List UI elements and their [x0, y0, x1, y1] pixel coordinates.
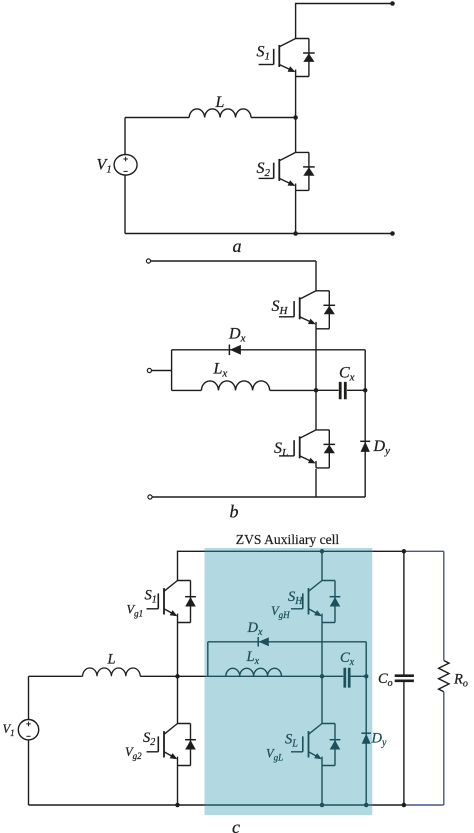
- wire (b) Lx right lead: [270, 389, 316, 391]
- node (a) positive output terminal: [390, 1, 395, 6]
- label V1 (c): [3, 722, 15, 738]
- inductor L: [189, 109, 251, 118]
- label V1: [97, 157, 112, 176]
- capacitor Cx: [340, 382, 345, 399]
- label ZVS Auxiliary cell: [236, 532, 340, 547]
- label Dy (c): [371, 731, 387, 749]
- capacitor Cx (c): [345, 668, 349, 688]
- label L (c): [107, 652, 116, 668]
- label Dx: [228, 326, 246, 345]
- transistor S2 with antiparallel diode: [259, 152, 315, 190]
- transistor SL with antiparallel diode: [279, 430, 335, 468]
- inductor L (c): [83, 668, 141, 676]
- svg-text:Vg2: Vg2: [125, 745, 142, 761]
- wire (c) bottom rail right segment: [372, 804, 404, 806]
- inductor Lx: [201, 381, 269, 390]
- node (c) bottom rail Dy junction: [364, 803, 369, 808]
- label Lx: [213, 361, 228, 380]
- wire (c) S1 collector feed: [177, 551, 179, 581]
- label VgL: [266, 747, 283, 763]
- wire (c) Ro bottom lead: [443, 692, 445, 805]
- node (c) top rail SH junction: [320, 549, 325, 554]
- label L: [215, 94, 225, 111]
- label a (subfigure): [233, 236, 242, 256]
- svg-text:Co: Co: [378, 671, 393, 689]
- wire (c) Co bottom lead: [403, 682, 405, 805]
- diode Dy (c): [361, 733, 371, 744]
- svg-text:b: b: [230, 502, 239, 522]
- wire (b) Dx branch: [172, 349, 366, 351]
- svg-text:Cx: Cx: [339, 365, 355, 384]
- transistor S1 with antiparallel diode (c): [147, 581, 196, 623]
- svg-text:SL: SL: [274, 440, 288, 459]
- wire (c) top rail inside cell: [205, 550, 373, 552]
- wire (a) bottom rail: [125, 233, 393, 235]
- wire (c) Dx branch: [208, 641, 366, 643]
- wire (c) aux right vertical: [365, 642, 367, 805]
- label Co: [378, 671, 393, 689]
- diode Dy: [360, 441, 370, 452]
- node (b) bottom input terminal: [148, 495, 152, 499]
- svg-text:S1: S1: [257, 44, 271, 63]
- wire (b) SH collector feed: [315, 261, 317, 291]
- label VgH: [271, 604, 290, 620]
- wire (b) middle terminal lead: [152, 370, 172, 372]
- svg-text:c: c: [232, 817, 240, 833]
- node (b) Cx right junction: [363, 388, 368, 393]
- svg-text:Dy: Dy: [373, 438, 391, 457]
- node (a) switch midpoint: [293, 115, 298, 120]
- resistor Ro: [439, 661, 449, 692]
- svg-text:SH: SH: [272, 298, 289, 317]
- wire (c) Cx right lead: [351, 675, 367, 677]
- svg-text:V1: V1: [97, 157, 112, 176]
- node (b) auxiliary midpoint: [314, 388, 319, 393]
- node (b) top input terminal: [146, 259, 150, 263]
- label Ro: [453, 672, 468, 690]
- node (c) aux midpoint: [320, 674, 325, 679]
- wire (c) S2 collector from main node: [177, 676, 179, 723]
- svg-text:S1: S1: [145, 588, 157, 606]
- wire (b) Cx right lead: [347, 389, 365, 391]
- wire (b) SH emitter to midpoint: [315, 329, 317, 430]
- wire (a) inductor left lead: [125, 117, 189, 119]
- wire (a) S1 collector feed: [295, 3, 297, 39]
- svg-text:Dx: Dx: [228, 326, 246, 345]
- wire (b) SL emitter to bottom rail: [315, 469, 317, 497]
- label b (subfigure): [230, 502, 239, 522]
- wire (a) top rail to output terminal: [296, 3, 393, 5]
- diode Dx (c): [258, 637, 269, 647]
- wire (c) Cx left lead: [322, 675, 343, 677]
- wire (a) S2 collector from midpoint: [295, 118, 297, 153]
- wire (c) SH collector feed: [321, 551, 323, 580]
- label Dy: [373, 438, 391, 457]
- wire (c) top rail left segment: [178, 550, 205, 552]
- wire (a) S2 emitter to bottom rail: [295, 190, 297, 233]
- svg-text:V1: V1: [3, 722, 15, 738]
- wire (c) top rail to Ro: [404, 550, 444, 552]
- node (c) bottom rail S2 junction: [175, 803, 180, 808]
- wire (c) S1 emitter to main node: [177, 623, 179, 677]
- wire (c) SH emitter to aux midpoint: [321, 623, 323, 677]
- wire (a) S1 emitter to midpoint node: [295, 77, 297, 118]
- label Dx (c): [247, 620, 263, 638]
- wire (c) SL collector from aux midpoint: [321, 676, 323, 723]
- transistor SH with antiparallel diode (c): [291, 581, 340, 623]
- label S1 (c): [145, 588, 157, 606]
- svg-text:Vg1: Vg1: [127, 603, 144, 619]
- wire (c) SL emitter to bottom rail: [321, 766, 323, 806]
- wire (c) source bottom lead: [28, 740, 30, 805]
- wire (a) inductor right lead: [251, 117, 296, 119]
- svg-text:ZVS Auxiliary cell: ZVS Auxiliary cell: [236, 532, 340, 547]
- source V1: [114, 155, 137, 176]
- svg-text:Ro: Ro: [453, 672, 468, 690]
- wire (b) top rail: [151, 260, 316, 262]
- label Vg1: [127, 603, 144, 619]
- label Lx (c): [246, 649, 260, 667]
- svg-text:S2: S2: [257, 160, 271, 179]
- node (c) bottom rail SL junction: [320, 803, 325, 808]
- transistor S1 with antiparallel diode: [259, 39, 315, 77]
- wire (c) aux left vertical: [207, 642, 209, 677]
- transistor SL with antiparallel diode (c): [291, 724, 340, 766]
- label S2 (c): [143, 730, 155, 748]
- wire (c) bottom rail inside cell: [205, 804, 373, 806]
- inductor Lx (c): [226, 668, 282, 676]
- wire (b) Cx left lead: [316, 389, 339, 391]
- transistor SH with antiparallel diode: [279, 291, 335, 329]
- label SL: [274, 440, 288, 459]
- wire (c) main line from source corner: [29, 675, 83, 677]
- capacitor Co: [395, 676, 414, 681]
- wire (a) source top lead: [124, 118, 126, 155]
- svg-text:L: L: [107, 652, 116, 668]
- label SH: [272, 298, 289, 317]
- wire (c) Ro top lead: [443, 551, 445, 660]
- source V1 (c): [18, 720, 38, 740]
- diode Dx: [229, 345, 241, 356]
- label Cx (c): [340, 650, 355, 668]
- label SL (c): [285, 732, 298, 750]
- wire (c) main line L to box: [140, 675, 204, 677]
- wire (a) source bottom lead: [124, 175, 126, 234]
- wire (c) bottom rail to Ro: [404, 804, 444, 806]
- transistor S2 with antiparallel diode (c): [147, 724, 196, 766]
- wire (c) bottom rail left segment: [29, 804, 205, 806]
- wire (c) Co top lead: [403, 551, 405, 674]
- node (c) bottom rail Co junction: [402, 803, 407, 808]
- label Cx: [339, 365, 355, 384]
- wire (c) main line inside cell: [205, 675, 323, 677]
- label SH (c): [288, 589, 303, 607]
- label c (subfigure): [232, 817, 240, 833]
- svg-text:Dy: Dy: [371, 731, 387, 749]
- svg-text:Lx: Lx: [213, 361, 228, 380]
- node (b) middle input terminal: [147, 368, 151, 372]
- wire (c) top rail right segment: [372, 550, 404, 552]
- label S2: [257, 160, 271, 179]
- node (c) Cx right junction: [364, 674, 369, 679]
- wire (b) bottom rail: [152, 496, 365, 498]
- highlight box ZVS auxiliary cell: [205, 548, 373, 815]
- wire (b) left link vertical: [171, 350, 173, 391]
- wire (c) source top lead: [28, 676, 30, 719]
- node (a) negative output terminal: [390, 231, 395, 236]
- node (c) top rail Co junction: [402, 549, 407, 554]
- wire (c) S2 emitter to bottom rail: [177, 766, 179, 806]
- svg-text:S2: S2: [143, 730, 155, 748]
- wire (b) right vertical Dx return: [364, 350, 366, 497]
- wire (b) Lx left lead: [172, 389, 202, 391]
- node (a) bottom rail junction: [293, 231, 298, 236]
- svg-text:a: a: [233, 236, 242, 256]
- node (c) main line S-midpoint: [175, 674, 180, 679]
- svg-text:L: L: [215, 94, 225, 111]
- label S1: [257, 44, 271, 63]
- label Vg2: [125, 745, 142, 761]
